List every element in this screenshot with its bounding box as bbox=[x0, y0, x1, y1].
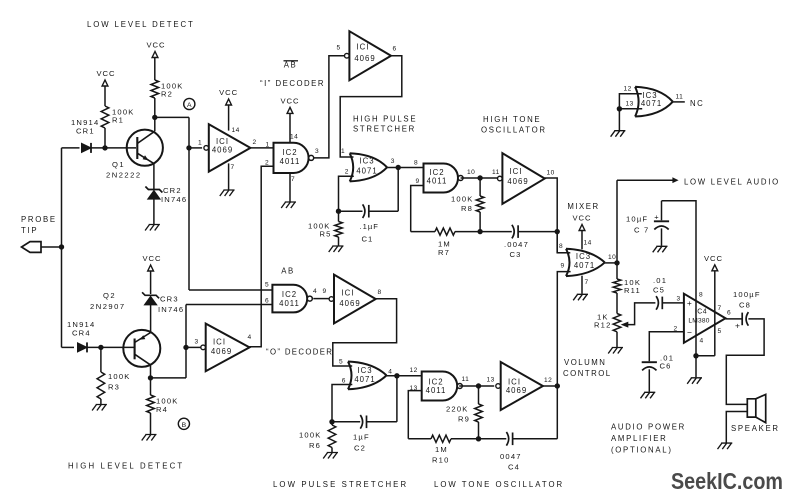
svg-text:4071: 4071 bbox=[354, 375, 375, 384]
svg-text:IC2: IC2 bbox=[282, 290, 297, 299]
label C2 bbox=[353, 433, 370, 453]
svg-text:4: 4 bbox=[388, 369, 392, 376]
probe tip symbol bbox=[22, 242, 42, 253]
svg-text:LOW PULSE STRETCHER: LOW PULSE STRETCHER bbox=[273, 480, 408, 489]
label R8 bbox=[451, 195, 474, 214]
svg-text:+: + bbox=[687, 298, 692, 308]
pin 12 IC1e bbox=[544, 377, 552, 384]
svg-text:12: 12 bbox=[624, 86, 632, 93]
label LOW PULSE STRETCHER bbox=[273, 480, 408, 489]
wire IC2d out bbox=[459, 385, 494, 387]
svg-text:0047: 0047 bbox=[500, 452, 522, 461]
capacitor C2 bbox=[360, 415, 366, 429]
wire C7 rail bbox=[662, 201, 697, 356]
wire R4 to ground bbox=[150, 413, 152, 434]
gate IC2a 4011 NAND bbox=[274, 143, 314, 173]
node R9 top bbox=[476, 383, 481, 388]
svg-text:1: 1 bbox=[198, 140, 202, 147]
svg-text:R6: R6 bbox=[309, 441, 321, 450]
wire R3 to ground bbox=[100, 399, 102, 404]
svg-text:IC3: IC3 bbox=[357, 366, 372, 375]
svg-text:Q2: Q2 bbox=[103, 291, 116, 300]
svg-text:AMPLIFIER: AMPLIFIER bbox=[611, 434, 667, 443]
pin 5 LM380 bbox=[718, 328, 722, 335]
svg-text:6: 6 bbox=[727, 310, 731, 317]
svg-text:13: 13 bbox=[626, 101, 634, 108]
pin 1 IC2a bbox=[266, 142, 270, 149]
node A tap bbox=[186, 145, 191, 150]
svg-text:4069: 4069 bbox=[506, 386, 527, 395]
node collector B bbox=[148, 375, 153, 380]
svg-text:.01: .01 bbox=[653, 276, 667, 285]
capacitor C5 bbox=[656, 296, 662, 310]
label IC2a bbox=[280, 148, 301, 166]
svg-text:10: 10 bbox=[608, 254, 616, 261]
label CR2 bbox=[161, 186, 187, 204]
ground under C7 bbox=[653, 246, 668, 252]
pin 9 IC3c bbox=[561, 263, 565, 270]
svg-text:5: 5 bbox=[337, 45, 341, 52]
svg-text:C1: C1 bbox=[362, 235, 374, 244]
svg-text:R5: R5 bbox=[320, 229, 332, 238]
pin 12 IC2d bbox=[410, 367, 418, 374]
pin 3 IC1d bbox=[195, 339, 199, 346]
gate IC3c 4071 OR mixer bbox=[566, 249, 605, 276]
wire LM380 pin5 bbox=[696, 355, 715, 357]
svg-text:10: 10 bbox=[467, 169, 475, 176]
label Q1 bbox=[106, 160, 142, 180]
wire low tone to mixer in9 bbox=[557, 272, 570, 386]
wire mixer in8 bbox=[557, 232, 570, 253]
ground under IC2a bbox=[281, 202, 296, 208]
wire probe tip to junction bbox=[41, 246, 62, 248]
svg-text:12: 12 bbox=[544, 377, 552, 384]
op-amp IC1b 4069 inverter bbox=[345, 31, 392, 80]
wire R9 top stub bbox=[478, 386, 480, 404]
label HIGH PULSE STRETCHER bbox=[353, 115, 417, 134]
node LM380 ground bbox=[693, 353, 698, 358]
svg-text:4069: 4069 bbox=[212, 146, 233, 155]
svg-text:IC3: IC3 bbox=[576, 252, 591, 261]
power VCC R1 bbox=[96, 69, 115, 86]
wire IC3b out bbox=[387, 375, 422, 377]
svg-text:HIGH TONE: HIGH TONE bbox=[483, 115, 541, 124]
node IC3a out bbox=[396, 165, 401, 170]
pin 14 IC1a bbox=[232, 127, 240, 134]
svg-text:4011: 4011 bbox=[426, 386, 447, 395]
watermark SeekIC.com bbox=[671, 468, 783, 494]
svg-text:3: 3 bbox=[391, 158, 395, 165]
power VCC Q2 bbox=[142, 254, 161, 271]
gate IC2d 4011 NAND bbox=[422, 372, 463, 401]
wire A line to IC2c in5 bbox=[189, 289, 272, 291]
wire IC1c out loop bbox=[333, 299, 397, 366]
svg-text:IN746: IN746 bbox=[161, 195, 187, 204]
node C3 mixer tap bbox=[555, 229, 560, 234]
wire C4 right bbox=[513, 438, 558, 440]
node R9 bottom bbox=[476, 436, 481, 441]
pin 4 IC3b bbox=[388, 369, 392, 376]
node probe junction bbox=[59, 244, 64, 249]
svg-text:10: 10 bbox=[547, 170, 555, 177]
net label AB bbox=[281, 267, 294, 276]
wire C2 to R6 node bbox=[332, 421, 360, 423]
wire IC2b in2 bbox=[411, 186, 424, 232]
svg-text:OSCILLATOR: OSCILLATOR bbox=[481, 126, 547, 135]
label IC1d bbox=[211, 338, 232, 357]
svg-text:ICI: ICI bbox=[357, 43, 370, 52]
wire R11 to R12 bbox=[616, 293, 618, 314]
label C1 bbox=[360, 222, 379, 243]
wire IC2a in2 from IC1d out bbox=[250, 166, 274, 346]
ground under LM380 bbox=[687, 378, 702, 384]
pin 2 IC2a bbox=[265, 160, 269, 167]
pin 12 IC3d bbox=[624, 86, 632, 93]
svg-text:14: 14 bbox=[232, 127, 240, 134]
wire C7 top bbox=[661, 201, 663, 221]
svg-text:R12: R12 bbox=[594, 321, 612, 330]
svg-text:220K: 220K bbox=[446, 405, 469, 414]
ground under CR2 bbox=[145, 225, 160, 231]
op-amp IC4 LM380 bbox=[684, 294, 726, 343]
power VCC IC1a bbox=[219, 88, 238, 105]
wire B to IC2c in6 bbox=[186, 304, 272, 306]
pin 5 IC1b bbox=[337, 45, 341, 52]
svg-text:8: 8 bbox=[699, 292, 703, 299]
wire IC3b out to C2 bbox=[396, 376, 398, 422]
resistor R6 bbox=[328, 425, 336, 448]
label C8 bbox=[733, 290, 761, 310]
svg-text:3: 3 bbox=[315, 148, 319, 155]
pin 13 IC1e bbox=[487, 377, 495, 384]
svg-text:IN746: IN746 bbox=[158, 305, 184, 314]
gate IC3d 4071 OR bbox=[635, 87, 673, 117]
svg-text:1µF: 1µF bbox=[353, 433, 370, 442]
wire R12 to ground bbox=[616, 332, 618, 347]
svg-text:C3: C3 bbox=[510, 250, 522, 259]
svg-text:13: 13 bbox=[487, 377, 495, 384]
zener CR3 bbox=[142, 292, 159, 305]
wire R1 to base node bbox=[104, 128, 106, 148]
wire IC3a in2 loop bbox=[339, 176, 354, 211]
resistor R3 bbox=[97, 372, 105, 399]
svg-text:7: 7 bbox=[291, 176, 295, 183]
pin 8 IC3c bbox=[559, 243, 563, 250]
svg-text:4069: 4069 bbox=[211, 347, 232, 356]
svg-text:MIXER: MIXER bbox=[567, 202, 599, 211]
pin 1 IC3a bbox=[341, 148, 345, 155]
ground under IC3d bbox=[611, 131, 626, 137]
svg-text:IC3: IC3 bbox=[359, 157, 374, 166]
gate IC2c 4011 NAND bbox=[272, 285, 312, 313]
wire R8 bottom stub bbox=[479, 212, 481, 232]
wire C3 to mixer line bbox=[518, 231, 557, 233]
pin 14 IC2a bbox=[290, 134, 298, 141]
svg-text:4069: 4069 bbox=[354, 54, 375, 63]
wire R6 to ground bbox=[331, 448, 333, 453]
wire A to IC1a bbox=[189, 147, 202, 149]
ground under R12 bbox=[608, 348, 623, 354]
svg-text:PROBE: PROBE bbox=[21, 215, 57, 224]
svg-text:A: A bbox=[187, 102, 192, 109]
wire IC2c out to IC1c bbox=[313, 298, 328, 300]
label R11 bbox=[624, 278, 641, 295]
power VCC LM380 bbox=[704, 254, 723, 271]
svg-text:4: 4 bbox=[313, 288, 317, 295]
svg-text:100K: 100K bbox=[299, 431, 322, 440]
svg-text:4071: 4071 bbox=[641, 99, 662, 108]
wire IC2b out bbox=[461, 177, 498, 179]
wire VCC IC1a bbox=[228, 105, 230, 130]
pin 11 IC3d bbox=[676, 94, 684, 101]
label CR3 bbox=[158, 295, 184, 315]
diode CR4 bbox=[78, 342, 88, 352]
svg-text:VCC: VCC bbox=[96, 69, 115, 78]
label IC3c bbox=[574, 252, 595, 270]
transistor Q2 bbox=[123, 330, 160, 367]
node collector A bbox=[152, 115, 157, 120]
label 1 DECODER bbox=[260, 79, 325, 88]
svg-text:7: 7 bbox=[718, 305, 722, 312]
capacitor C6 bbox=[642, 362, 657, 370]
label R2 bbox=[161, 82, 184, 99]
wire IC3a out to C1 bbox=[397, 168, 399, 212]
capacitor C8 bbox=[735, 312, 748, 330]
wire IC1e out bbox=[543, 385, 557, 387]
pin 13 IC2d bbox=[410, 385, 418, 392]
svg-text:Q1: Q1 bbox=[112, 160, 125, 169]
wire B tap to IC1d bbox=[186, 346, 201, 348]
svg-text:.0047: .0047 bbox=[504, 240, 529, 249]
label C6 bbox=[660, 354, 675, 371]
wire R8 top stub bbox=[479, 178, 481, 196]
pin 8 LM380 bbox=[699, 292, 703, 299]
svg-text:2: 2 bbox=[253, 139, 257, 146]
svg-text:1: 1 bbox=[266, 142, 270, 149]
svg-text:6: 6 bbox=[342, 378, 346, 385]
svg-text:R7: R7 bbox=[438, 248, 450, 257]
wire collector node to A line bbox=[155, 116, 189, 118]
op-amp IC1d 4069 inverter bbox=[201, 324, 250, 372]
svg-text:5: 5 bbox=[718, 328, 722, 335]
svg-text:1: 1 bbox=[341, 148, 345, 155]
pin 6 IC1b bbox=[393, 46, 397, 53]
gate IC2b 4011 NAND bbox=[424, 164, 464, 193]
wire IC1b out loop bbox=[340, 56, 402, 157]
wire IC2a out up to IC1b bbox=[314, 56, 345, 158]
node R1 base junction bbox=[102, 145, 107, 150]
wire low tone out to C4 bbox=[556, 386, 558, 439]
label IC1a bbox=[212, 137, 233, 155]
label R12 bbox=[594, 313, 612, 330]
svg-text:4071: 4071 bbox=[574, 261, 595, 270]
wire B vertical bbox=[185, 305, 187, 378]
svg-text:TIP: TIP bbox=[21, 226, 38, 235]
svg-text:C5: C5 bbox=[653, 285, 665, 294]
svg-text:STRETCHER: STRETCHER bbox=[353, 125, 416, 134]
pin 4 IC2c bbox=[313, 288, 317, 295]
svg-text:VCC: VCC bbox=[704, 254, 723, 263]
pin 6 IC2c bbox=[265, 298, 269, 305]
ground under C6 bbox=[641, 392, 656, 398]
wire R5 to ground bbox=[338, 237, 340, 246]
label IC1c bbox=[339, 289, 360, 309]
resistor R11 bbox=[613, 279, 621, 293]
pin 2 IC3a bbox=[345, 169, 349, 176]
label R7 bbox=[438, 240, 451, 258]
svg-text:VCC: VCC bbox=[142, 254, 161, 263]
wire IC1f out loop bbox=[545, 178, 567, 253]
pin 8 IC2b bbox=[414, 160, 418, 167]
svg-text:4071: 4071 bbox=[356, 167, 377, 176]
svg-text:B: B bbox=[182, 422, 187, 429]
svg-text:8: 8 bbox=[559, 243, 563, 250]
svg-text:LOW TONE OSCILLATOR: LOW TONE OSCILLATOR bbox=[434, 480, 564, 489]
svg-text:“O” DECODER: “O” DECODER bbox=[266, 348, 333, 357]
resistor R7 bbox=[435, 228, 455, 235]
label R5 bbox=[308, 221, 332, 238]
svg-text:C 7: C 7 bbox=[634, 226, 649, 235]
wire LM380 ground bbox=[695, 356, 697, 378]
wire R10 right bbox=[451, 438, 479, 440]
svg-text:HIGH PULSE: HIGH PULSE bbox=[353, 115, 417, 124]
svg-text:LOW LEVEL DETECT: LOW LEVEL DETECT bbox=[87, 20, 195, 29]
svg-text:4069: 4069 bbox=[339, 299, 360, 308]
label VOLUMN CONTROL bbox=[563, 358, 612, 378]
label C7 bbox=[626, 215, 649, 235]
label IC2b bbox=[427, 168, 448, 186]
label LOW LEVEL DETECT bbox=[87, 20, 195, 29]
pin 10 IC1f out bbox=[547, 170, 555, 177]
resistor R2 bbox=[151, 80, 159, 98]
svg-text:ICI: ICI bbox=[342, 289, 355, 298]
wire VCC mixer bbox=[581, 231, 583, 249]
svg-text:2N2907: 2N2907 bbox=[90, 302, 126, 311]
pin 1 IC1a bbox=[198, 140, 202, 147]
wire LM380 pin2 to C6 bbox=[649, 332, 684, 361]
node R3 base junction bbox=[98, 345, 103, 350]
pin 6 IC3b bbox=[342, 378, 346, 385]
wire C2 row bbox=[367, 421, 397, 423]
wire VCC to R1 bbox=[104, 86, 106, 106]
wire Q1 collector up bbox=[154, 117, 156, 131]
svg-text:100K: 100K bbox=[108, 372, 131, 381]
capacitor C7 bbox=[654, 213, 669, 230]
svg-text:4011: 4011 bbox=[279, 299, 300, 308]
wire C4 to R9 node bbox=[479, 438, 507, 440]
wire probe to CR4 bbox=[62, 346, 75, 348]
label R9 bbox=[446, 405, 470, 424]
label IC2c bbox=[279, 290, 300, 308]
svg-text:R1: R1 bbox=[112, 115, 124, 124]
wire A vertical bbox=[188, 117, 190, 290]
svg-text:AUDIO POWER: AUDIO POWER bbox=[611, 423, 686, 432]
pin 14 IC3c bbox=[584, 240, 592, 247]
svg-text:4: 4 bbox=[700, 338, 704, 345]
node mixer out bbox=[614, 260, 619, 265]
label MIXER VCC bbox=[567, 202, 599, 223]
svg-text:R10: R10 bbox=[432, 456, 450, 465]
wire IC3b in6 loop bbox=[332, 385, 352, 422]
svg-text:12: 12 bbox=[410, 367, 418, 374]
svg-text:9: 9 bbox=[561, 263, 565, 270]
svg-text:C2: C2 bbox=[354, 444, 366, 453]
label R6 bbox=[299, 431, 322, 451]
label HIGH TONE OSCILLATOR bbox=[481, 115, 547, 135]
ground under speaker bbox=[718, 443, 733, 449]
label SPEAKER bbox=[731, 424, 780, 433]
capacitor C1 bbox=[363, 204, 369, 218]
pin 10 IC2b bbox=[467, 169, 475, 176]
svg-text:.1µF: .1µF bbox=[360, 222, 379, 231]
svg-text:LOW LEVEL AUDIO: LOW LEVEL AUDIO bbox=[684, 178, 780, 187]
wire IC2d in13 bbox=[408, 391, 421, 439]
node R5 C1 bbox=[336, 209, 341, 214]
wire C1 to R5 node bbox=[339, 210, 363, 212]
svg-text:3: 3 bbox=[195, 339, 199, 346]
label IC1f bbox=[507, 167, 528, 186]
resistor R12 potentiometer bbox=[613, 314, 621, 332]
ground under mixer bbox=[573, 294, 588, 300]
svg-text:AB: AB bbox=[281, 267, 294, 276]
gate IC3b 4071 OR bbox=[348, 362, 387, 390]
wire IC3d out NC bbox=[673, 101, 685, 103]
svg-text:R8: R8 bbox=[461, 204, 473, 213]
wire VCC to R2 bbox=[154, 58, 156, 80]
wire C1 row bbox=[369, 210, 398, 212]
op-amp IC1c 4069 inverter bbox=[329, 275, 376, 324]
label C5 bbox=[653, 276, 667, 294]
op-amp IC1a 4069 inverter bbox=[204, 124, 251, 171]
svg-text:7: 7 bbox=[231, 164, 235, 171]
label Q2 bbox=[90, 291, 126, 311]
svg-text:8: 8 bbox=[414, 160, 418, 167]
wire IC1a ground bbox=[228, 163, 230, 189]
node R8 top bbox=[477, 175, 482, 180]
svg-text:5: 5 bbox=[265, 282, 269, 289]
svg-text:10µF: 10µF bbox=[626, 215, 648, 224]
svg-text:VCC: VCC bbox=[280, 97, 299, 106]
resistor R5 bbox=[335, 222, 343, 238]
node B bbox=[178, 418, 189, 429]
node R6 C2 bbox=[329, 419, 334, 424]
svg-text:CR1: CR1 bbox=[76, 127, 95, 136]
svg-text:R11: R11 bbox=[624, 286, 641, 295]
label HIGH LEVEL DETECT bbox=[68, 462, 184, 471]
svg-text:4011: 4011 bbox=[280, 157, 301, 166]
wire mixer out up bbox=[616, 180, 618, 263]
wire speaker to ground bbox=[726, 412, 747, 443]
wire R9 bottom stub bbox=[478, 422, 480, 439]
power VCC mixer bbox=[579, 225, 585, 231]
svg-text:100K: 100K bbox=[451, 195, 474, 204]
wire Q1 emitter down bbox=[153, 164, 155, 190]
svg-text:HIGH LEVEL DETECT: HIGH LEVEL DETECT bbox=[68, 462, 184, 471]
wire R7 right bbox=[455, 231, 480, 233]
svg-text:ICI: ICI bbox=[508, 378, 521, 387]
svg-text:SeekIC.com: SeekIC.com bbox=[671, 468, 783, 494]
svg-text:SPEAKER: SPEAKER bbox=[731, 424, 780, 433]
svg-text:“I” DECODER: “I” DECODER bbox=[260, 79, 325, 88]
wire C3 row bbox=[480, 231, 512, 233]
node IC3b out bbox=[394, 373, 399, 378]
wire R10 left bbox=[408, 438, 431, 440]
svg-text:14: 14 bbox=[584, 240, 592, 247]
svg-text:AB: AB bbox=[284, 61, 297, 70]
wire C8 to speaker bbox=[726, 319, 764, 405]
pin 10 IC3c bbox=[608, 254, 616, 261]
wire mixer out down bbox=[616, 263, 618, 279]
